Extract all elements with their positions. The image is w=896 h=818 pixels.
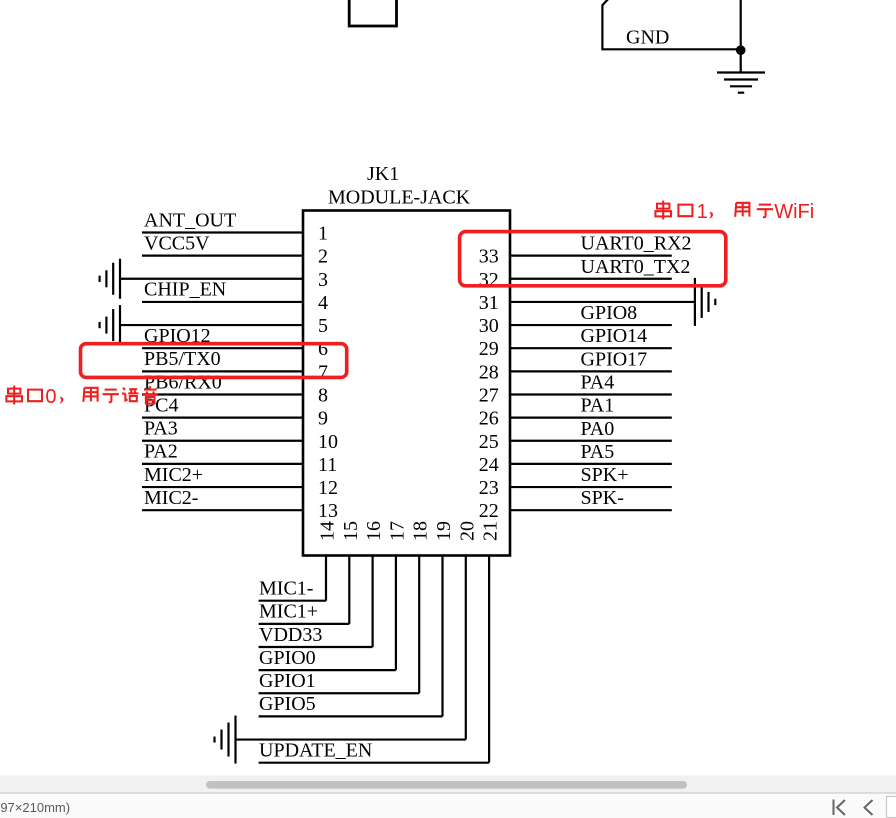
wire GND net	[740, 0, 742, 73]
pin 13 wire	[142, 509, 303, 511]
svg-text:GPIO1: GPIO1	[259, 670, 316, 692]
svg-text:PA4: PA4	[581, 371, 615, 393]
svg-text:28: 28	[479, 361, 499, 383]
svg-text:33: 33	[479, 246, 499, 268]
svg-text:WiFi: WiFi	[774, 201, 814, 223]
scrollbar track	[0, 776, 896, 794]
svg-text:22: 22	[479, 500, 499, 522]
svg-text:15: 15	[340, 521, 362, 541]
svg-text:1: 1	[697, 201, 708, 223]
page input box	[887, 797, 896, 818]
nav first-page icon	[834, 800, 846, 816]
svg-text:2: 2	[318, 246, 328, 268]
pin 6 wire	[142, 347, 303, 349]
wire rail MIC1+	[259, 623, 350, 625]
svg-text:6: 6	[318, 338, 328, 360]
svg-text:MODULE-JACK: MODULE-JACK	[328, 187, 471, 209]
svg-text:PB5/TX0: PB5/TX0	[144, 348, 221, 370]
ground symbol at pin 5	[100, 305, 120, 345]
svg-text:12: 12	[318, 477, 338, 499]
svg-text:8: 8	[318, 384, 328, 406]
pin 18 wire	[418, 556, 420, 694]
svg-text:17: 17	[386, 521, 408, 541]
pin 31 wire	[510, 301, 695, 303]
pin 3 wire	[120, 278, 303, 280]
svg-text:14: 14	[317, 521, 339, 541]
svg-text:MIC2-: MIC2-	[144, 487, 198, 509]
svg-text:18: 18	[410, 521, 432, 541]
svg-text:JK1: JK1	[367, 163, 399, 185]
svg-text:16: 16	[363, 521, 385, 541]
pin 32 wire	[510, 278, 672, 280]
wire rail GPIO0	[259, 669, 396, 671]
pin 29 wire	[510, 347, 672, 349]
svg-text:4: 4	[318, 292, 328, 314]
pin 10 wire	[142, 440, 303, 442]
annotation text 串口0，用于语音	[6, 386, 158, 409]
pin 17 wire	[395, 556, 397, 671]
pin 8 wire	[142, 393, 303, 395]
status bar	[0, 793, 896, 818]
svg-text:UART0_TX2: UART0_TX2	[581, 256, 691, 278]
svg-text:5: 5	[318, 315, 328, 337]
red highlight box pins 33-32	[460, 232, 726, 286]
pin 30 wire	[510, 324, 672, 326]
svg-text:MIC1-: MIC1-	[259, 578, 313, 600]
svg-text:ANT_OUT: ANT_OUT	[144, 209, 236, 231]
svg-text:PA3: PA3	[144, 418, 178, 440]
svg-text:PA2: PA2	[144, 441, 178, 463]
svg-text:GPIO0: GPIO0	[259, 647, 316, 669]
pin 11 wire	[142, 463, 303, 465]
junction dot	[736, 45, 746, 55]
svg-text:GPIO5: GPIO5	[259, 693, 316, 715]
svg-text:31: 31	[479, 292, 499, 314]
pin 14 wire	[325, 556, 327, 601]
svg-text:MIC1+: MIC1+	[259, 601, 318, 623]
pin 1 wire	[142, 231, 303, 233]
svg-text:0: 0	[45, 386, 56, 408]
svg-text:24: 24	[479, 454, 499, 476]
pin 12 wire	[142, 486, 303, 488]
pin 20 wire	[465, 556, 467, 740]
svg-text:26: 26	[479, 408, 499, 430]
pin 21 wire	[488, 556, 490, 763]
svg-text:29: 29	[479, 338, 499, 360]
wire rail VDD33	[259, 646, 373, 648]
svg-text:23: 23	[479, 477, 499, 499]
ground symbol at pin 3	[100, 259, 120, 299]
pin 33 wire	[510, 255, 672, 257]
pin 28 wire	[510, 370, 672, 372]
wire rail MIC1-	[259, 600, 326, 602]
pin 16 wire	[372, 556, 374, 647]
svg-text:25: 25	[479, 431, 499, 453]
svg-text:7: 7	[318, 361, 328, 383]
svg-text:13: 13	[318, 500, 338, 522]
svg-text:VDD33: VDD33	[259, 624, 322, 646]
svg-text:30: 30	[479, 315, 499, 337]
scrollbar thumb	[206, 781, 687, 789]
power port GND flag	[602, 0, 740, 49]
nav prev-page icon	[865, 800, 873, 815]
pin 26 wire	[510, 417, 672, 419]
ground symbol at pin 20	[215, 716, 236, 764]
svg-text:SPK+: SPK+	[581, 464, 629, 486]
svg-text:11: 11	[318, 454, 337, 476]
svg-text:UPDATE_EN: UPDATE_EN	[259, 739, 372, 761]
red highlight box pins 6-7	[81, 344, 347, 378]
svg-text:PA5: PA5	[581, 441, 615, 463]
ground symbol at pin 31	[695, 278, 715, 326]
svg-text:27: 27	[479, 384, 499, 406]
pin 5 wire	[120, 324, 303, 326]
pin 22 wire	[510, 509, 672, 511]
ground symbol top-right	[717, 73, 765, 93]
svg-text:9: 9	[318, 408, 328, 430]
partial component top-left	[349, 0, 396, 26]
pin 2 wire	[142, 255, 303, 257]
svg-text:GND: GND	[626, 27, 669, 49]
pin 25 wire	[510, 440, 672, 442]
wire rail GPIO1	[259, 692, 420, 694]
pin 15 wire	[348, 556, 350, 624]
svg-text:PA1: PA1	[581, 395, 615, 417]
wire rail UPDATE_EN	[259, 762, 490, 764]
annotation text 串口1，用于WiFi	[655, 201, 814, 224]
pin 24 wire	[510, 463, 672, 465]
svg-text:PA0: PA0	[581, 418, 615, 440]
svg-text:CHIP_EN: CHIP_EN	[144, 279, 226, 301]
svg-text:MIC2+: MIC2+	[144, 464, 203, 486]
svg-text:(97×210mm): (97×210mm)	[0, 800, 70, 815]
svg-text:20: 20	[456, 521, 478, 541]
pin 23 wire	[510, 486, 672, 488]
pin 9 wire	[142, 417, 303, 419]
pin 7 wire	[142, 370, 303, 372]
svg-text:SPK-: SPK-	[581, 487, 624, 509]
svg-text:3: 3	[318, 269, 328, 291]
connector JK1 body	[303, 211, 510, 556]
pin 27 wire	[510, 393, 672, 395]
svg-text:GPIO17: GPIO17	[581, 348, 648, 370]
wire rail GPIO5	[259, 715, 443, 717]
svg-text:21: 21	[480, 521, 502, 541]
svg-text:19: 19	[433, 521, 455, 541]
svg-text:10: 10	[318, 431, 338, 453]
svg-text:GPIO8: GPIO8	[581, 302, 638, 324]
svg-text:VCC5V: VCC5V	[144, 232, 210, 254]
wire rail to ground	[236, 738, 466, 740]
pin 4 wire	[142, 301, 303, 303]
svg-text:UART0_RX2: UART0_RX2	[581, 233, 692, 255]
svg-text:1: 1	[318, 223, 328, 245]
svg-text:GPIO14: GPIO14	[581, 325, 648, 347]
pin 19 wire	[441, 556, 443, 717]
